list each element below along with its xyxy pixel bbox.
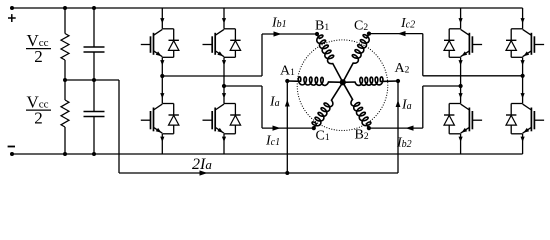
arrow current down leg S4 y=65.5 <box>521 60 525 65</box>
transistor S2t (top IGBT with diode, leg x=224.0) <box>224 28 235 30</box>
arrow current down leg S1 y=65.5 <box>160 60 164 65</box>
wire C1 feed horizontal from leg S2 <box>224 85 262 87</box>
inductor winding A2 <box>343 77 398 86</box>
resistor R-top (upper Vcc/2 divider) <box>64 8 66 34</box>
transistor S4b (bottom IGBT with diode, leg x=522.6) <box>511 103 522 105</box>
transistor S4t (top IGBT with diode, leg x=522.6) <box>511 28 522 30</box>
arrow Ib2 current <box>406 126 414 131</box>
wire B1 feed top run <box>262 33 317 35</box>
arrow current down leg S2 y=23.5 <box>222 18 226 23</box>
arrow current down leg S4 y=98.5 <box>521 93 525 98</box>
wire C2 feed top run <box>369 33 423 35</box>
arrow current down leg S3 y=98.5 <box>459 93 463 98</box>
inductor winding B1 <box>317 34 343 82</box>
node C2 terminal <box>367 31 371 35</box>
wire B2 feed horizontal from leg S3 <box>423 85 461 87</box>
inductor winding B2 <box>343 82 371 128</box>
inductor winding C2 <box>343 34 369 83</box>
wire leg S1 middle <box>161 57 163 103</box>
motor stator dotted circle <box>297 40 388 131</box>
junction top rail at resistor <box>63 6 67 10</box>
wire leg S2 middle <box>223 57 225 103</box>
arrow Ia up A1 side <box>285 100 290 107</box>
junction bottom rail at resistor <box>63 152 67 156</box>
wire leg S3 lower <box>460 134 462 154</box>
arrow current down leg S1 y=98.5 <box>160 93 164 98</box>
wire C2 feed riser <box>422 34 424 76</box>
wire B1 feed horizontal from leg S1 <box>162 75 262 77</box>
arrow current down leg S3 y=65.5 <box>459 60 463 65</box>
resistor R-bottom (lower Vcc/2 divider) <box>64 80 66 100</box>
arrow Ic1 current <box>273 126 281 131</box>
motor star point <box>340 79 346 85</box>
arrow current down leg S1 y=23.5 <box>160 18 164 23</box>
arrow current down leg S4 y=23.5 <box>521 18 525 23</box>
inductor winding C1 <box>312 82 343 128</box>
wire B2 feed dropper <box>422 86 424 128</box>
transistor S1b (bottom IGBT with diode, leg x=162.3) <box>162 103 173 105</box>
junction leg S1 output node <box>160 74 164 78</box>
arrow current down leg S2 y=142.0 <box>222 137 226 142</box>
wire C1 feed bottom run <box>262 127 314 129</box>
transistor S3b (bottom IGBT with diode, leg x=460.6) <box>449 103 460 105</box>
arrow Ia up A2 side <box>396 100 401 107</box>
svg-text:2: 2 <box>34 109 43 128</box>
junction A1 vertical on 2Ia bus <box>285 171 289 175</box>
capacitor C-bottom (lower DC-link cap) <box>93 80 95 112</box>
node A1 terminal <box>285 79 289 83</box>
transistor S3t (top IGBT with diode, leg x=460.6) <box>449 28 460 30</box>
node B2 terminal <box>367 126 371 130</box>
arrow current down leg S2 y=98.5 <box>222 93 226 98</box>
wire leg S3 middle <box>460 57 462 103</box>
wire leg S1 lower <box>161 134 163 154</box>
node B1 terminal <box>315 32 319 36</box>
arrow current down leg S1 y=142.0 <box>160 137 164 142</box>
node + (positive DC terminal) <box>10 6 14 10</box>
wire leg S4 upper <box>522 8 524 29</box>
node A2 terminal <box>396 79 400 83</box>
wire leg S3 upper <box>460 8 462 29</box>
wire Ia vertical A2 side <box>397 81 399 173</box>
wire top DC rail <box>12 7 523 9</box>
inductor winding A1 <box>287 77 343 86</box>
junction top rail at capacitor <box>92 6 96 10</box>
junction midpoint at capacitor <box>92 78 96 82</box>
wire C2 feed horizontal from leg S4 <box>423 75 523 77</box>
wire leg S4 lower <box>522 134 524 154</box>
wire C1 feed dropper <box>261 86 263 128</box>
wire DC midpoint rail <box>65 79 119 81</box>
junction leg S2 output node <box>222 84 226 88</box>
wire bottom DC rail <box>12 153 523 155</box>
node - (negative DC terminal) <box>10 152 14 156</box>
arrow 2Ia current <box>200 170 208 175</box>
junction bottom rail at capacitor <box>92 152 96 156</box>
arrow Ic2 current <box>398 31 406 36</box>
junction midpoint at resistor <box>63 78 67 82</box>
junction leg S3 output node <box>459 84 463 88</box>
svg-text:2: 2 <box>34 47 43 66</box>
wire leg S2 upper <box>223 8 225 29</box>
arrow current down leg S2 y=65.5 <box>222 60 226 65</box>
wire leg S4 middle <box>522 57 524 103</box>
wire B1 feed riser <box>261 34 263 76</box>
wire leg S1 upper <box>161 8 163 29</box>
junction leg S4 output node <box>521 74 525 78</box>
arrow current down leg S4 y=142.0 <box>521 137 525 142</box>
wire leg S2 lower <box>223 134 225 154</box>
wire Ia vertical A1 side <box>286 81 288 173</box>
node C1 terminal <box>312 126 316 130</box>
transistor S1t (top IGBT with diode, leg x=162.3) <box>162 28 173 30</box>
capacitor C-top (upper DC-link cap) <box>93 8 95 47</box>
wire DC midpoint drop to 2Ia bus <box>118 80 120 173</box>
wire B2 feed bottom run <box>369 127 423 129</box>
arrow Ib1 current <box>274 31 282 36</box>
wire 2Ia return bus <box>119 172 398 174</box>
arrow current down leg S3 y=23.5 <box>459 18 463 23</box>
arrow current down leg S3 y=142.0 <box>459 137 463 142</box>
transistor S2b (bottom IGBT with diode, leg x=224.0) <box>224 103 235 105</box>
svg-text:2Ia: 2Ia <box>192 156 212 173</box>
